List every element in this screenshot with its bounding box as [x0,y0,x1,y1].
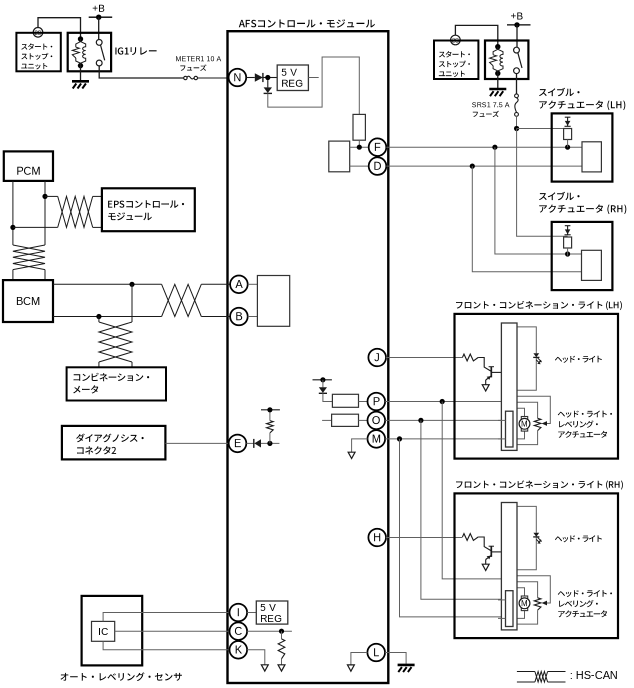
potentiometer (leveling LH) [534,418,541,430]
label AFS control module [239,19,375,27]
resistor (headlight drive LH) [462,354,478,361]
wire node M to ground arrow [352,439,368,452]
label diagnosis line2 [77,446,116,454]
diode (P pull-up) [319,387,327,393]
ground arrow (node L) [347,665,354,671]
wire node O to LH light [385,419,505,421]
wire meter pair right to box [131,362,133,367]
wire O branch to RH light [421,420,506,599]
wire relay coil to ground (right) [497,73,499,88]
label swivel line1 (LH) [539,88,580,97]
relay coil (left) [72,39,85,66]
zener diode D2 [264,87,272,93]
wire sensor to node K [103,641,229,650]
wire relay switch to fuse SRS1 [516,74,518,94]
label headlight (RH) [555,535,602,542]
wire headlight LED loop (RH) [517,506,536,532]
wire node E to diode [246,442,254,444]
ground arrow (node M) [348,452,355,458]
wire node C to pull-down [247,630,292,632]
motor drive block (swivel LH) [582,142,601,172]
wire 2S to relay coil (left) [38,18,81,39]
EPS control module box [102,188,195,231]
wire E resistor leads [269,410,271,421]
polarity diode (swivel LH) [565,117,571,126]
wire U1 to node D [350,165,369,167]
label swivel line1 (RH) [539,192,580,201]
resistor (E pull-up) [267,421,274,433]
relay switch contacts (right) [514,47,522,73]
wire leveling wiper loop (RH) [517,576,550,603]
wire node H to RH light [386,537,462,539]
ground (relay coil right) [489,89,506,96]
power +B (right) [507,13,531,28]
wire node D to swivel LH [386,165,582,167]
combination meter box [67,367,166,400]
label fuse (SRS1) [473,111,499,117]
label SRS1 7.5 A [472,102,509,107]
label 5V (top REG) line1 [282,69,297,76]
wire D branch down to swivel RH [472,166,581,272]
label BCM [17,297,39,305]
connector strip (LH) [501,323,517,450]
wire B branch to meter pair [98,317,100,323]
wire junction to EPS pair top [45,195,58,197]
start-stop unit box (left) [16,33,60,72]
leveling connector (RH) [506,591,514,627]
ground arrow (transistor emitter RH) [482,564,489,570]
label headlight (LH) [555,356,602,363]
wire E diode to pull-up [261,442,279,444]
wire node I to 5V REG [247,612,256,614]
twisted pair (module A/B) [162,284,202,316]
label start-stop unit line1 (right) [439,51,470,58]
node L [367,644,385,662]
diagnosis connector 2 box [62,426,165,460]
label auto leveling sensor [61,672,182,681]
legend HS-CAN symbol [517,672,566,683]
label IG1 relay [115,47,156,55]
label HS-CAN [571,671,617,679]
motor M (leveling actuator LH) [519,417,530,432]
auto leveling sensor box [82,596,143,666]
wire pair to BCM left [12,270,14,281]
label IC [99,628,108,635]
wire junction to zener [267,80,269,87]
wire BCM to CAN-L (B) [53,316,162,318]
label start-stop unit line1 (left) [21,43,52,50]
block (P interface) [332,394,358,407]
transistor (RH) [486,546,502,564]
node O [368,412,386,430]
wire PCM CAN-H down [44,181,46,245]
power +B (left) [89,5,113,20]
IC block (sensor) [92,621,115,641]
wire pair to node A [201,283,230,285]
label start-stop unit line2 (left) [21,53,52,60]
junction (SRS1 feed, swivel LH) [514,126,519,131]
wire leveling resistor return (RH) [517,610,538,624]
label start-stop unit line3 (left) [21,63,47,69]
wire A branch to meter pair [131,284,133,322]
junction (swivel RH resistor/F) [565,251,570,256]
wire C resistor lead [281,631,283,639]
junction (PCM CAN-H / EPS) [42,194,47,199]
motor M (leveling actuator RH) [519,596,530,611]
label 5V (top REG) line2 [282,80,302,87]
wire P block to node P [359,401,368,403]
node 2S (right) [451,35,461,45]
wire fuse METER1 to node N [198,77,229,79]
wire node F to swivel actuators [386,146,582,148]
relay coil (right) [490,47,503,74]
wire stub M into leveling connector (RH) [498,617,506,619]
wire resistor to transistor base (RH) [478,537,491,551]
ground arrow (C pull-down) [278,665,285,671]
wire F branch down to swivel RH [495,147,582,254]
wire diode to 5V REG [263,77,277,79]
node A [230,276,248,294]
swivel actuator box (RH) [552,222,613,290]
wire diagnosis connector to node E [165,442,228,444]
label swivel line2 (LH) [539,101,625,111]
block CAN transceiver [257,276,289,327]
wire zener return loop [268,57,360,114]
wire resistor R1 to node F [358,140,360,147]
label diagnosis line1 [76,434,144,443]
fuse METER1 10A symbol [184,76,198,80]
label EPS line1 [108,200,184,208]
ground arrow (node K) [261,665,268,671]
node C [230,622,248,640]
node N [229,69,247,87]
wiper arrow (leveling RH) [542,601,547,606]
swivel actuator box (LH) [552,113,613,181]
wire IG1 relay to fuse METER1 [99,66,184,78]
AFS control module box [228,31,389,683]
wire leveling resistor feed (LH) [517,402,538,418]
wire node K to ground arrow [247,650,265,665]
junction relay coil bottom (left) [78,63,83,68]
wire P diode to block [323,393,333,401]
label meter line1 [74,373,150,382]
resistor (swivel RH) [564,237,572,248]
junction (E pull-up) [267,441,272,446]
wire node L to ground arrow [351,653,368,665]
wire node J to LH light [386,357,462,359]
node D [369,157,387,175]
wire P rail to diode [322,380,324,388]
wiper arrow (leveling LH) [542,421,547,426]
twisted pair (EPS) [58,196,93,227]
label leveling actuator line1 (LH) [558,411,612,418]
wire node B to CAN block [248,316,258,318]
node I [230,604,248,622]
polarity diode (swivel RH) [565,226,571,235]
junction (F branch) [492,145,497,150]
power rail (E pull-up) [261,407,280,412]
BCM box [3,280,53,322]
wire relay coil to ground (left) [80,66,82,81]
wire meter pair left to box [98,362,100,367]
regulator 5V REG (bottom) [256,601,288,624]
label METER1 10 A [176,56,221,61]
block (O interface) [332,414,359,426]
wire PCM CAN-L down [12,181,14,245]
resistor (headlight drive RH) [462,534,478,541]
power rail (P pull-up) [313,377,332,382]
wire junction to EPS pair bottom [13,226,58,228]
wire SRS1 feed to swivel LH resistor [517,128,568,130]
junction (swivel LH resistor/F) [565,145,570,150]
wire sensor to node I [103,613,229,622]
junction relay coil top (right) [495,44,500,49]
wire pair to BCM right [44,270,46,281]
node 2S (left) [33,28,43,38]
junction relay coil bottom (right) [495,71,500,76]
wire 5V REG output stub [308,77,318,79]
resistor (swivel LH) [564,129,572,140]
junction (A / meter) [129,282,134,287]
wire fuse SRS1 to junction [516,116,518,128]
wire O block stub [322,419,332,421]
regulator 5V REG (top) [277,65,308,91]
label leveling actuator line2 (RH) [559,600,598,607]
junction relay coil top (left) [78,36,83,41]
wire leveling wiper loop (LH) [517,396,550,423]
label 5V (bottom REG) line2 [261,615,281,622]
junction (P branch) [440,399,445,404]
wire leveling resistor feed (RH) [517,582,538,598]
wire node N to diode [246,77,255,79]
wire stub O into leveling connector (LH) [498,419,506,421]
junction (D branch) [470,164,475,169]
node P [368,393,386,411]
wire +B to relay switch (left) [98,17,100,40]
label leveling actuator line3 (RH) [558,610,607,617]
wire node M to LH light [385,438,505,440]
start-stop unit box (right) [434,41,478,80]
LED headlight (RH) [533,533,542,544]
ground (node L) [398,665,415,672]
wire 2S to relay coil (right) [455,25,497,46]
wire sensor to node C [115,630,230,632]
diode D1 (ignition input) [255,73,263,82]
wire E resistor to junction [269,433,271,444]
wire SRS1 feed down to swivel RH [517,129,568,237]
connector strip (RH) [501,503,517,630]
junction (PCM CAN-L / EPS) [10,225,15,230]
label leveling actuator line2 (LH) [559,420,598,427]
legend twisted pair [535,672,548,683]
label EPS line2 [108,212,152,220]
twisted pair (PCM-BCM) [13,245,45,270]
junction (M branch) [397,436,402,441]
wire C resistor to ground arrow [281,659,283,665]
motor drive block (swivel RH) [582,250,602,280]
wire EPS pair top to box [93,195,102,197]
wire leveling motor return (RH) [513,611,525,619]
wire swivel resistor to F wire (LH) [567,140,569,148]
junction (REG input) [265,75,270,80]
PCM box [4,151,53,181]
node H [368,529,386,547]
junction (C pull-down) [279,629,284,634]
wire EPS pair bottom to box [93,226,102,228]
relay box (right) [485,41,528,80]
wire leveling resistor return (LH) [517,431,538,445]
label swivel line2 (RH) [539,205,626,215]
front combination light box (LH) [455,314,619,459]
node B [230,308,248,326]
resistor R1 (swivel feed) [353,114,365,140]
ground (relay coil left) [72,81,89,88]
diode (node E input) [254,439,261,448]
label start-stop unit line3 (right) [439,71,465,77]
twisted pair (combination meter) [99,322,132,362]
junction (R1/F) [357,145,362,150]
wire node L to chassis ground [385,653,406,664]
wire node A to CAN block [248,283,258,285]
potentiometer (leveling RH) [534,598,541,610]
node J [368,349,386,367]
label meter line2 [73,385,98,393]
label fuse (METER1) [180,65,206,71]
transistor (LH) [486,367,502,385]
junction (B / meter) [96,314,101,319]
wire U1 to node F [350,146,369,148]
wire swivel resistor to F wire (RH) [567,248,569,256]
block U1 (swivel driver) [329,141,350,172]
wire BCM to CAN-H (A) [53,283,162,285]
ground arrow (transistor emitter LH) [482,385,489,391]
wire headlight LED loop return (LH) [517,357,536,390]
front combination light box (RH) [455,493,619,638]
relay switch contacts (left) [96,40,104,66]
wire resistor to transistor base (LH) [478,358,491,372]
LED headlight (LH) [533,353,542,364]
leveling connector (LH) [506,411,514,447]
wire headlight LED loop (LH) [517,327,536,353]
label leveling actuator line1 (RH) [558,590,612,597]
wire headlight LED loop return (RH) [517,537,536,570]
resistor (C pull-down) [278,639,285,659]
label leveling actuator line3 (LH) [558,431,607,438]
fuse SRS1 7.5A symbol [515,94,519,116]
wire node P to LH light [385,401,501,403]
relay box (left) [68,33,111,72]
wire pair to node B [201,316,230,318]
node M [368,430,386,448]
wire leveling motor feed (RH) [517,588,525,596]
wire +B to relay switch (right) [516,25,518,48]
wire M branch to RH light [400,439,506,617]
node E [229,435,247,453]
wire leveling motor return (LH) [513,431,525,439]
label front combination light (RH) [456,480,623,489]
label PCM [17,167,39,175]
label front combination light (LH) [456,301,622,310]
wire O block to node O [359,419,368,421]
node F [369,138,387,156]
wire stub M into leveling connector (LH) [498,438,506,440]
wire leveling motor feed (LH) [517,408,525,416]
junction (O branch) [418,418,423,423]
wire stub O into leveling connector (RH) [498,599,506,601]
node K [230,641,248,659]
wire P branch to RH light [442,402,501,579]
label start-stop unit line2 (right) [439,61,470,68]
label 5V (bottom REG) line1 [261,604,276,611]
